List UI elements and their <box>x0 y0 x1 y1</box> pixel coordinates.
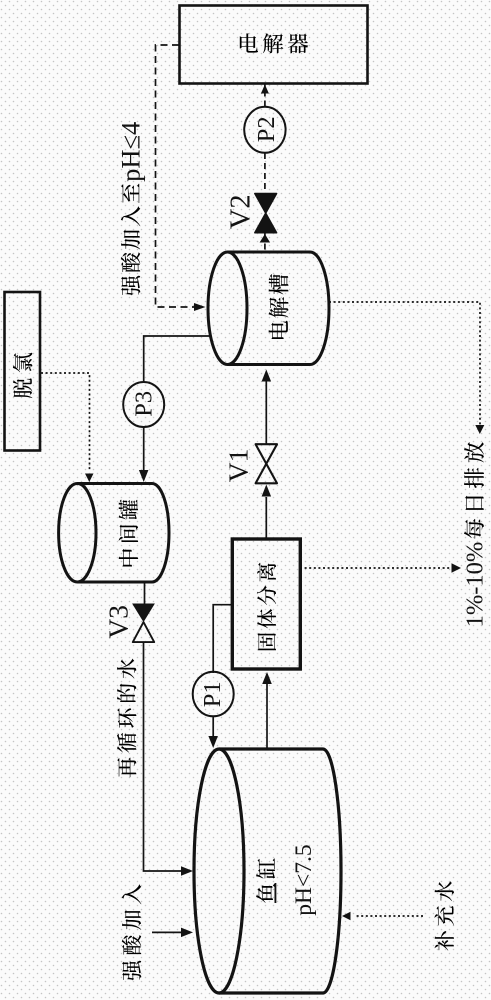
wire: V3 down and right into fish tank (recycled water) <box>144 642 194 876</box>
svg-text:1%-10%: 1%-10% <box>462 542 489 628</box>
label: 补充水 with dotted arrow into fish tank <box>342 881 454 950</box>
wire: dotted discharge from solids separation right side <box>300 563 461 573</box>
svg-text:P3: P3 <box>130 391 157 417</box>
label: 强酸加入至pH≤4 <box>116 122 146 296</box>
wire: P1 down to fish tank with arrow <box>208 716 218 748</box>
svg-text:pH<7.5: pH<7.5 <box>291 844 317 915</box>
wire: solids separation up through V1 to electrolysis tank <box>262 370 272 541</box>
wire: P3 down to intermediate tank with arrow <box>139 427 149 482</box>
wire: dashed strong-acid feed from electrolyzer branch down to electrolysis tank <box>156 45 206 311</box>
valve V3 (top filled, bottom open) <box>102 604 155 643</box>
label: 1%-10%每日排放 <box>462 442 489 627</box>
wire: solids separation left side to P1 <box>213 605 232 673</box>
box: solids separation 固体分离 (bold) <box>232 539 300 669</box>
valve V1 (open) <box>222 444 277 483</box>
wire: dashed line electrolysis tank up to electrolyzer via P2 and V2 <box>260 84 271 252</box>
label: 强酸加入 with arrow into fish tank <box>122 884 193 980</box>
pump P3 <box>123 382 164 427</box>
wire: fish tank up to solids separation with arrow <box>262 672 272 749</box>
svg-text:pH≤4: pH≤4 <box>116 122 146 182</box>
wire: electrolysis tank to pump P3 <box>144 336 210 384</box>
pump P1 <box>193 672 234 717</box>
svg-text:V3: V3 <box>102 605 133 639</box>
valve V2 (filled) <box>225 194 276 233</box>
wire: dotted line dechlorination to intermediate tank <box>41 373 94 482</box>
pump P2 <box>244 107 285 153</box>
wire: dotted daily discharge from electrolysis tank right side <box>329 302 484 434</box>
box: electrolyzer 电解器 <box>180 6 368 84</box>
wire: intermediate tank down to valve V3 <box>144 582 146 604</box>
svg-text:V1: V1 <box>222 449 253 483</box>
svg-text:P1: P1 <box>199 681 226 707</box>
underline for 鱼 <box>275 883 277 903</box>
svg-text:P2: P2 <box>253 116 280 142</box>
tank: electrolysis tank 电解槽 <box>208 252 329 365</box>
box: dechlorination 脱氯 <box>5 292 41 451</box>
label: 再循环的水 <box>117 659 136 778</box>
tank: intermediate tank 中间罐 <box>59 484 169 583</box>
svg-text:V2: V2 <box>225 194 256 229</box>
tank: fish tank 鱼缸 pH<7.5 <box>194 749 341 993</box>
